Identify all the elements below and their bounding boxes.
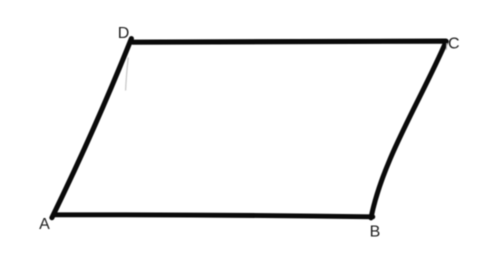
svg-text:D: D (118, 25, 130, 42)
svg-text:A: A (39, 216, 50, 233)
svg-text:C: C (448, 36, 460, 53)
side CB (right edge) (371, 41, 446, 218)
faint stray pen mark below D (126, 58, 129, 90)
svg-text:B: B (370, 223, 381, 240)
side AD (left edge) (52, 39, 131, 218)
side DC (top edge) (133, 41, 446, 42)
faint tick at corner C (445, 44, 447, 50)
side AB (bottom edge) (54, 215, 373, 217)
